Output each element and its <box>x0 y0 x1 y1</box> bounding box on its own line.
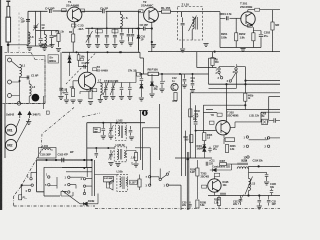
wire L9 leads <box>44 31 46 47</box>
resistor R8 <box>148 72 159 75</box>
pin box 27k <box>137 73 141 77</box>
capacitor C104 <box>129 126 133 136</box>
ground under C319 <box>257 206 262 209</box>
ground under C15 <box>112 45 117 48</box>
capacitor C320 <box>267 196 271 206</box>
chassis boundary bottom right <box>205 208 280 210</box>
capacitor C801 <box>226 16 228 20</box>
wire L7 leads <box>99 95 101 99</box>
wire R1 leads <box>58 31 60 48</box>
ground under C11 <box>190 90 195 93</box>
label C15 15P <box>112 30 118 33</box>
terminal E1 <box>8 58 12 62</box>
terminal E2 <box>8 80 12 84</box>
trimmer arrow C10b <box>110 81 116 96</box>
wire bus drop x196.8 <box>196 52 198 68</box>
node IF rail2 dot 2 <box>107 147 109 149</box>
node C319 rail dot <box>258 194 260 196</box>
capacitor C17b <box>183 74 187 84</box>
wire T202 base feed <box>196 130 216 132</box>
capacitor Ch <box>103 9 105 13</box>
resistor R210 <box>196 200 199 208</box>
pin box Z201 <box>255 8 260 11</box>
wire box verticals x92/94.5 <box>92 160 95 196</box>
node bus dot c <box>120 51 122 53</box>
ground between meters <box>26 122 31 125</box>
contact S3-1b <box>68 183 70 185</box>
wire bracket A right edge <box>269 96 280 98</box>
coil L103 primary <box>117 149 119 159</box>
pin box C label <box>202 185 207 188</box>
wire R4 leads <box>78 52 80 66</box>
wire T2 collector to RL <box>158 11 161 13</box>
capacitor C24 <box>140 74 144 83</box>
capacitor C2 on riser2 <box>34 26 38 28</box>
wire T202 emitter down <box>223 135 225 138</box>
transformer L102 box (dashed) <box>115 123 126 140</box>
wire riser1 <box>28 11 48 46</box>
wire into switch y67.5 <box>197 67 217 69</box>
ground under x61 bus <box>58 97 63 100</box>
transformer Z L10 shield box (dashed) <box>178 7 203 41</box>
core L102 <box>121 126 122 139</box>
wire rail B y51.5 <box>148 51 280 53</box>
contact S1-1c <box>220 77 222 79</box>
pin box T201 emitter <box>248 24 253 27</box>
diode D0 on drop <box>137 35 140 38</box>
ground under C315 <box>264 182 269 185</box>
wire bus jog staircase <box>140 52 144 74</box>
node rail dot 2 <box>106 27 108 29</box>
trimmer arrow C7 <box>103 81 109 96</box>
pin box 572 <box>217 113 222 116</box>
trimmer arrow C20 <box>86 31 93 43</box>
scan edge bar top (left margin) <box>0 0 1 46</box>
wire T202 collector riser <box>226 110 228 121</box>
transistor T3 <box>78 72 95 90</box>
wire supply line x195.6 <box>195 105 197 158</box>
capacitor C1 <box>27 76 29 80</box>
ground T201 rail <box>240 49 245 52</box>
diode D3 and C18 <box>150 74 153 93</box>
coil L102 primary <box>118 126 120 136</box>
resistor R2 <box>72 34 75 42</box>
inductor L6 <box>121 15 123 27</box>
contact S5-1 <box>30 178 32 180</box>
wire lower bus right <box>209 83 281 85</box>
contact S1-2a <box>235 68 237 70</box>
diode D2 <box>140 83 143 97</box>
inductor L8 <box>28 32 30 44</box>
wire L313 leads <box>248 166 250 196</box>
inductor L9 <box>45 35 47 47</box>
wire R307 to L312 <box>219 164 237 170</box>
wire Z L10 bottom lead <box>183 30 193 49</box>
contact S5-3 <box>28 189 30 191</box>
ground under C105 <box>108 136 113 139</box>
wire L2 leads <box>28 80 30 103</box>
wire emitter rail <box>253 30 261 33</box>
contact S3-1c <box>68 191 70 193</box>
wire supply line x203.4 <box>202 105 204 132</box>
resistor R22b <box>244 93 247 101</box>
wire box verticals x187.5/188.8 <box>187 152 189 210</box>
wire audio box left edge <box>189 93 191 158</box>
wire top rail of trimmer row <box>97 82 136 85</box>
capacitor C207 electrolytic <box>208 147 211 153</box>
wire riser x181.4 <box>180 74 182 176</box>
node rail dot d2 <box>161 73 163 75</box>
ground under L9 <box>42 48 47 51</box>
contact S2-1b <box>246 145 248 147</box>
pin box T2 <box>139 10 143 13</box>
wire R204 down <box>272 30 274 52</box>
capacitor C15 <box>113 28 117 43</box>
contact S1-1a <box>218 68 220 70</box>
ground under R5 <box>70 100 75 103</box>
wire L312 out right <box>248 167 280 169</box>
wire diagonal to D10B <box>62 191 80 204</box>
antenna AN1 upper segment <box>7 6 10 17</box>
wire bus y52.3 <box>62 51 140 53</box>
contact S4-2 <box>159 178 161 180</box>
wire stub y109.5 left <box>206 109 213 111</box>
wire tank top rail <box>36 30 59 32</box>
transformer L312 coil <box>237 167 248 169</box>
transistor T1 <box>67 7 82 22</box>
ground row under C20 <box>86 45 91 48</box>
node callout 1 (black dot) <box>142 110 148 116</box>
node rail dot d1 <box>140 73 142 75</box>
ground under C17b <box>182 85 187 88</box>
wire S1-2 top link <box>236 67 246 68</box>
node bus dot b <box>107 51 109 53</box>
wire supply feed y105.2 <box>203 104 245 106</box>
label L107 box <box>130 180 138 184</box>
chassis boundary bottom middle <box>95 207 200 209</box>
wire L9 bottom <box>44 45 46 47</box>
inductor Z L10 primary <box>192 17 194 29</box>
node IF rail2 dot 1 <box>95 147 97 149</box>
wire audio box top edge <box>190 92 280 94</box>
resistor R4 <box>77 55 80 60</box>
contact S3-1a <box>68 176 70 178</box>
ground under C41 <box>119 97 124 100</box>
coil L103 secondary <box>124 151 126 158</box>
chassis dash diagonal right of compartment <box>41 108 74 152</box>
coil L107 primary <box>120 177 122 187</box>
wire bracket B right edge <box>261 111 280 113</box>
capacitor C21 <box>96 28 100 43</box>
capacitor C14 <box>84 65 86 69</box>
node boundary dot <box>21 184 23 186</box>
ground under C13 <box>64 100 69 103</box>
ground right of Z L10 <box>203 44 208 47</box>
wire S2 link <box>249 137 268 140</box>
wire riser2 <box>35 11 37 46</box>
resistor R207 horizontal <box>225 138 235 142</box>
ground under L103 <box>115 164 120 167</box>
wire drop x138.4 <box>137 29 139 51</box>
resistor R403 <box>189 109 192 117</box>
core Z L10 <box>196 17 198 30</box>
resistor R307 <box>220 163 227 166</box>
node rail dot 1 <box>91 27 93 29</box>
wire R560 leads <box>212 52 214 68</box>
inductor L2 <box>29 84 31 96</box>
transformer L103 box (dashed) <box>114 147 127 162</box>
antenna AN1 lower segment <box>6 17 11 42</box>
wire L103 right lead <box>127 151 136 153</box>
wire top rail y109.5 <box>227 109 281 111</box>
node L1 bottom dot <box>19 80 21 82</box>
wire box edge x140.5 <box>139 110 148 160</box>
node rail dot 3 <box>121 27 123 29</box>
wire S1-1c stub <box>219 74 221 77</box>
wire IF rail 2 y148 <box>87 147 114 149</box>
terminal E3 <box>8 94 12 98</box>
wire S4 mid link <box>151 169 160 179</box>
node IF rail dot 2 <box>116 122 118 124</box>
wire T201 collector up <box>248 10 255 12</box>
contact S3-2b <box>83 185 85 187</box>
ground under L8 <box>27 48 32 51</box>
wire L8 bottom <box>27 44 29 46</box>
trimmer capacitor C20 <box>87 28 91 43</box>
antenna AN1 tip bar <box>6 1 10 2</box>
resistor R6 <box>89 91 92 99</box>
terminal on bottom boundary <box>17 102 21 106</box>
wire boundary stub <box>22 185 31 195</box>
ground under D2 <box>139 98 144 101</box>
wire C4 to T1 base <box>53 10 68 12</box>
wire C209 feed <box>269 120 274 122</box>
wire C8 link <box>136 28 152 30</box>
contact S1-3 <box>229 80 231 82</box>
contact S2-2a <box>267 137 269 139</box>
resistor R308 <box>217 198 220 206</box>
resistor R204 <box>271 22 274 30</box>
ground under R6 <box>88 102 93 105</box>
wire T1 emitter down <box>74 22 76 28</box>
wire T1 collector to right <box>82 10 102 12</box>
node trunk dot at bus <box>244 83 246 85</box>
wire L1 to bottom <box>20 77 30 104</box>
trimmer capacitor C10b <box>111 83 115 96</box>
wire antenna lead <box>7 42 9 53</box>
capacitor C8 <box>143 27 145 31</box>
wire crystal leads <box>230 122 269 128</box>
contact S3-2c <box>83 192 85 194</box>
capacitor C16 <box>120 28 124 39</box>
inductor L7 <box>100 83 102 95</box>
node dot on x187.5 <box>186 158 188 160</box>
contact J1-2 <box>48 184 50 186</box>
scan edge bar (left margin) <box>0 46 2 210</box>
wire R209 leads <box>196 160 198 199</box>
capacitor C204 electrolytic series <box>194 122 198 124</box>
transistor T202 <box>216 121 230 135</box>
wire left drop x86.8 <box>86 123 88 168</box>
wire supply rail y167.5 <box>62 167 92 169</box>
wire R22b down <box>244 101 246 109</box>
resistor R106 <box>134 153 137 161</box>
wire right branch down <box>272 10 274 22</box>
wire bracket A vertical <box>268 97 270 121</box>
capacitor C19 electrolytic <box>160 74 164 88</box>
label box C21 <box>96 30 103 33</box>
capacitor C9 <box>39 11 43 43</box>
wire switch trunk x245.5 <box>245 67 247 94</box>
wire rail y171.8 <box>66 171 92 173</box>
wire C801 to T201 <box>230 17 242 19</box>
crystal X201 box <box>262 119 268 125</box>
capacitor C25 <box>188 202 191 209</box>
wire battery bus y160 <box>37 159 93 161</box>
wire R202 leads <box>252 27 254 47</box>
node bus dot T3b <box>87 51 89 53</box>
resistor R10 <box>174 93 177 101</box>
node bus dot m1 <box>45 159 47 161</box>
ground at T2 emitter <box>151 45 156 48</box>
node R22b supply dot <box>244 104 246 106</box>
wire T301 emitter to rail <box>214 176 219 208</box>
diode D1 stack <box>68 52 71 76</box>
capacitor Ca on riser1 <box>26 20 30 22</box>
ground pair right of B+ <box>41 45 46 48</box>
node C8 right dot <box>151 27 153 29</box>
wire base feed <box>217 12 225 19</box>
capacitor C22 <box>105 28 109 43</box>
speaker SP symbol <box>107 180 114 190</box>
wire riser x185.4 <box>184 131 186 176</box>
ground under C19 <box>159 89 164 92</box>
wire M1 to terminal1 <box>16 119 20 128</box>
wire L6 riser <box>120 11 122 28</box>
capacitor C106 <box>95 148 99 158</box>
wire tap y172.4 <box>249 172 267 174</box>
ground under C107 <box>108 163 113 166</box>
resistor R206 <box>225 145 228 153</box>
capacitor series on bus <box>62 158 64 162</box>
wire collector riser x226.5 <box>226 84 228 109</box>
pin box T202 base <box>209 121 214 124</box>
wire left bus x61 <box>60 52 62 95</box>
wire Ch to right <box>106 10 141 12</box>
wire audio rail y174.5 <box>95 174 117 176</box>
speaker SP box <box>104 176 114 182</box>
contact S1-2b <box>235 71 237 73</box>
chassis boundary left diagonal <box>14 151 95 206</box>
resistor RL <box>162 10 171 13</box>
core L103 <box>121 149 122 160</box>
wire IF rail y122.7 <box>87 122 145 124</box>
node IF rail dot 1 <box>102 122 104 124</box>
wire S4 out <box>169 185 181 210</box>
wire S4-2 diagonal <box>161 175 166 179</box>
ground under D3 <box>149 94 154 97</box>
resistor R560 <box>211 58 214 66</box>
wire battery bus left drop <box>37 160 45 192</box>
trimmer capacitor C317 <box>239 196 243 206</box>
ground under L7 <box>98 100 103 103</box>
oscillator coil box L101 <box>39 148 57 159</box>
ground under Z L10 <box>180 49 185 52</box>
gang line dashed through T3 <box>66 53 96 85</box>
ground pair 2 <box>49 45 54 48</box>
wire E1 diagonal to L1 <box>11 61 19 96</box>
pin box T3 <box>93 68 97 71</box>
contact S4-3a <box>166 173 168 175</box>
shield box right edge dash <box>44 60 46 104</box>
resistor R5 <box>71 89 74 97</box>
capacitor C202 electrolytic <box>259 31 263 41</box>
capacitor C4 <box>50 9 52 13</box>
capacitor C319 <box>258 196 262 206</box>
wire S3 links <box>70 177 92 192</box>
wire R201 leads <box>235 18 237 47</box>
transistor T201 <box>241 12 255 26</box>
core L107 <box>123 177 124 190</box>
wire S1-1 to S1-2 <box>219 67 235 68</box>
capacitor C11 <box>191 74 195 89</box>
wire J box inner links <box>61 191 73 196</box>
wire supply feed y112.5 <box>203 112 217 114</box>
contact S3-2a <box>83 178 85 180</box>
wire riser x106.8 <box>106 11 108 28</box>
capacitor C5 <box>50 31 54 47</box>
wire emitter rail <box>224 139 225 145</box>
wire emitter link y66.7 <box>79 66 88 68</box>
node y166 dot <box>258 165 260 167</box>
diode D301 <box>210 168 219 171</box>
resistor R202 <box>252 33 255 41</box>
node bus dot d <box>119 51 121 53</box>
wire T3 base left <box>73 81 78 88</box>
resistor R209 <box>196 168 199 176</box>
terminal arrow 2 <box>28 112 31 119</box>
node trunk dot at AGC <box>244 80 246 82</box>
shield dash vertical <box>18 13 20 52</box>
coil L107 secondary <box>126 178 128 185</box>
capacitor C22 on x61 <box>59 88 63 90</box>
inductor L1 <box>20 65 22 77</box>
wire J1 links <box>50 177 57 189</box>
wire R405 down <box>203 141 205 145</box>
ground under C22 <box>104 45 109 48</box>
ground left of T1 under C9 <box>38 44 43 47</box>
capacitor C42 <box>128 83 132 96</box>
label TBD 9BP box <box>93 128 100 133</box>
coil bumps L101 <box>41 149 53 150</box>
capacitor C41 <box>120 83 124 96</box>
ground under C103 <box>101 136 106 139</box>
antenna AN1 stem <box>7 2 9 6</box>
resistor R201 <box>235 33 238 41</box>
pin label box n <box>46 111 49 114</box>
capacitor C209 <box>274 118 276 123</box>
wire audio bottom rail <box>208 195 280 197</box>
node rail dot n1 <box>83 167 85 169</box>
capacitor C211 <box>206 162 208 166</box>
capacitor inside Z L10 <box>181 18 185 32</box>
ground under C10b <box>110 97 115 100</box>
wire T3 top riser <box>87 52 89 72</box>
wire riser x98 <box>97 194 99 204</box>
meter M1 <box>5 124 16 135</box>
trimmer arrow C105 <box>109 125 114 135</box>
contact S5-2 <box>31 184 33 186</box>
